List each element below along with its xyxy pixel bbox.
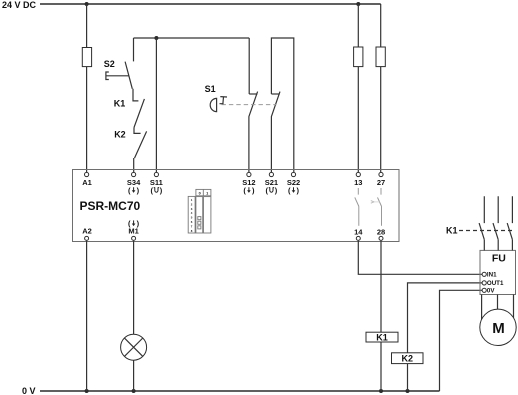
svg-text:24 V DC: 24 V DC <box>2 0 37 10</box>
svg-text:PSR-MC70: PSR-MC70 <box>80 199 141 213</box>
svg-text:13: 13 <box>354 178 362 187</box>
svg-text:0 V: 0 V <box>22 386 36 395</box>
svg-text:28: 28 <box>377 228 385 237</box>
svg-text:14: 14 <box>354 228 363 237</box>
svg-text:K1: K1 <box>376 332 388 342</box>
svg-text:IN1: IN1 <box>487 272 497 279</box>
svg-text:OUT1: OUT1 <box>487 280 504 287</box>
svg-text:1: 1 <box>206 192 208 196</box>
svg-text:M: M <box>492 320 505 337</box>
svg-text:K1: K1 <box>446 226 458 236</box>
svg-text:FU: FU <box>492 252 506 264</box>
svg-text:S2: S2 <box>104 59 115 69</box>
svg-text:A2: A2 <box>82 227 92 236</box>
svg-text:0: 0 <box>199 192 201 196</box>
svg-text:A1: A1 <box>82 178 92 187</box>
svg-text:27: 27 <box>377 178 385 187</box>
svg-text:K2: K2 <box>402 353 414 363</box>
svg-text:K2: K2 <box>114 130 126 140</box>
svg-text:0V: 0V <box>487 288 495 295</box>
svg-text:K1: K1 <box>114 98 126 108</box>
svg-text:S1: S1 <box>205 84 216 94</box>
